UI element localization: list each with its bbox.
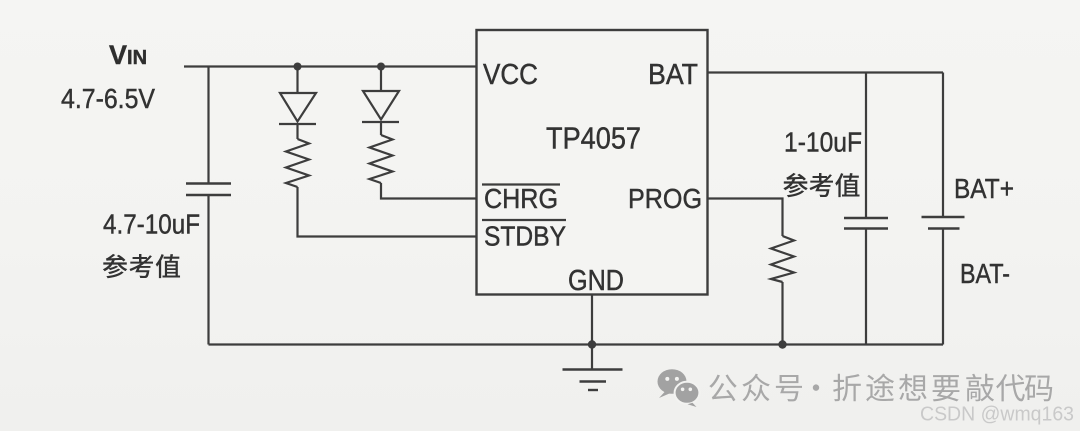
svg-text:4.7-10uF: 4.7-10uF — [103, 209, 200, 240]
svg-text:TP4057: TP4057 — [546, 121, 641, 156]
svg-text:1-10uF: 1-10uF — [784, 127, 862, 158]
svg-text:VCC: VCC — [483, 59, 538, 91]
svg-text:PROG: PROG — [628, 183, 702, 214]
svg-text:CHRG: CHRG — [484, 183, 558, 214]
svg-text:STDBY: STDBY — [484, 221, 566, 252]
svg-text:4.7-6.5V: 4.7-6.5V — [61, 83, 155, 114]
svg-text:BAT+: BAT+ — [954, 173, 1014, 204]
svg-text:GND: GND — [568, 265, 624, 297]
svg-text:BAT: BAT — [648, 59, 698, 91]
svg-text:CSDN @wmq163: CSDN @wmq163 — [920, 404, 1074, 426]
svg-text:BAT-: BAT- — [960, 258, 1010, 289]
